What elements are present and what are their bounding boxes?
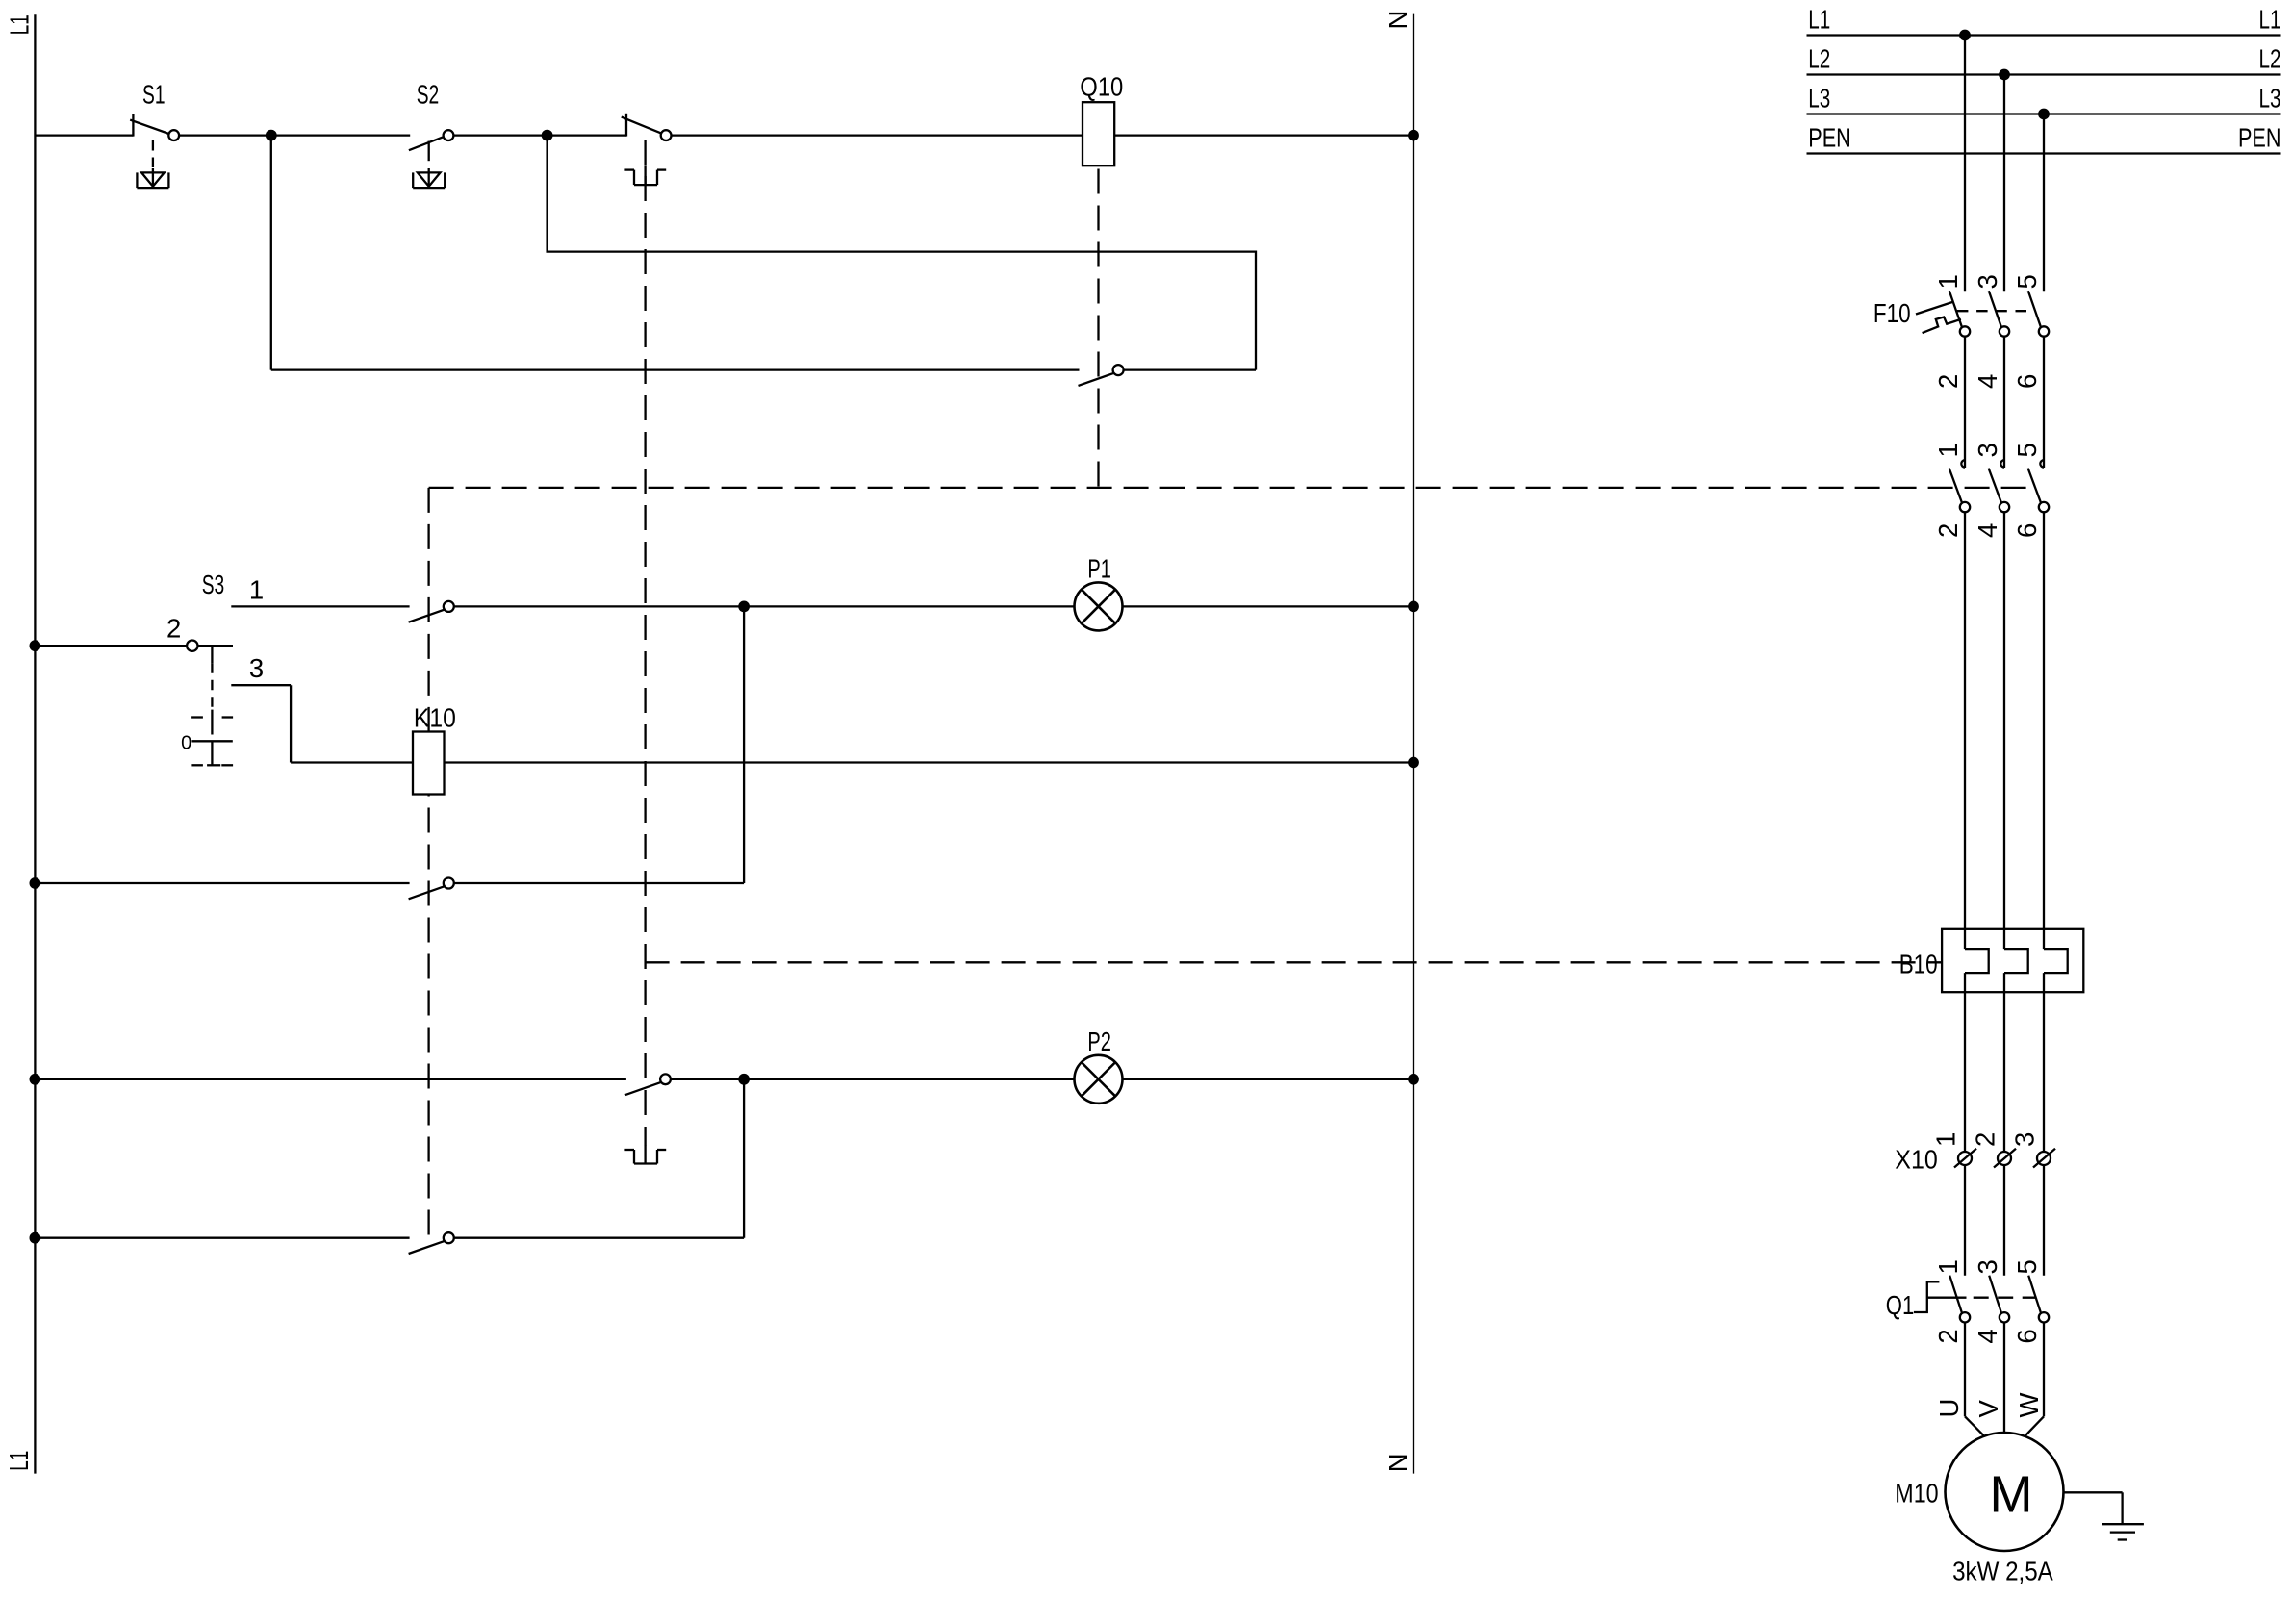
svg-text:N: N	[1383, 1453, 1413, 1472]
svg-text:4: 4	[1973, 523, 2002, 538]
svg-text:5: 5	[2012, 274, 2042, 289]
svg-text:N: N	[1383, 11, 1413, 30]
svg-text:5: 5	[2012, 443, 2042, 457]
svg-text:P2: P2	[1087, 1027, 1111, 1056]
svg-text:2: 2	[166, 614, 181, 644]
svg-text:Q10: Q10	[1080, 72, 1123, 102]
svg-text:F10: F10	[1873, 298, 1911, 328]
svg-text:4: 4	[1973, 374, 2002, 389]
svg-text:X10: X10	[1895, 1145, 1938, 1175]
svg-text:5: 5	[2012, 1259, 2042, 1274]
svg-text:S1: S1	[142, 80, 166, 110]
svg-text:1: 1	[249, 574, 264, 604]
svg-text:3: 3	[249, 653, 264, 683]
svg-text:2: 2	[1933, 374, 1963, 389]
svg-text:L2: L2	[1808, 43, 1830, 73]
svg-text:L1: L1	[1808, 4, 1830, 34]
svg-text:3: 3	[1973, 274, 2002, 289]
svg-text:P1: P1	[1087, 553, 1111, 583]
svg-text:L3: L3	[2259, 83, 2281, 113]
svg-text:Q1: Q1	[1886, 1290, 1915, 1320]
svg-text:4: 4	[1973, 1329, 2002, 1343]
svg-text:3kW 2,5A: 3kW 2,5A	[1952, 1557, 2053, 1586]
svg-text:M10: M10	[1895, 1478, 1938, 1508]
svg-text:1: 1	[1933, 274, 1963, 289]
svg-text:1: 1	[1933, 1259, 1963, 1274]
svg-text:U: U	[1934, 1399, 1964, 1418]
svg-text:6: 6	[2012, 523, 2042, 538]
svg-text:0: 0	[181, 733, 191, 754]
svg-text:M: M	[1990, 1466, 2033, 1524]
svg-text:L1: L1	[2259, 4, 2281, 34]
svg-text:S3: S3	[202, 570, 225, 599]
svg-text:S2: S2	[417, 80, 440, 110]
svg-text:6: 6	[2012, 374, 2042, 389]
svg-text:W: W	[2014, 1393, 2044, 1418]
svg-text:2: 2	[1933, 523, 1963, 538]
svg-text:2: 2	[1971, 1132, 2000, 1147]
svg-text:L2: L2	[2259, 43, 2281, 73]
svg-text:PEN: PEN	[1808, 122, 1851, 152]
svg-text:1: 1	[1931, 1132, 1961, 1147]
svg-text:3: 3	[2010, 1132, 2040, 1147]
svg-text:L1: L1	[4, 1451, 34, 1471]
svg-text:2: 2	[1933, 1329, 1963, 1343]
svg-text:PEN: PEN	[2238, 122, 2281, 152]
svg-text:B10: B10	[1899, 950, 1938, 979]
svg-text:3: 3	[1973, 443, 2002, 457]
svg-text:K10: K10	[414, 702, 456, 732]
svg-text:V: V	[1974, 1400, 2003, 1418]
svg-text:6: 6	[2012, 1329, 2042, 1343]
svg-text:L3: L3	[1808, 83, 1830, 113]
svg-text:3: 3	[1973, 1259, 2002, 1274]
svg-text:L1: L1	[4, 14, 34, 35]
svg-text:1: 1	[1933, 443, 1963, 457]
